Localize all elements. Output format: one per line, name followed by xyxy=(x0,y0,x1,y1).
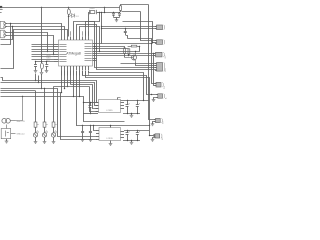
wire rail to A2 xyxy=(101,28,156,30)
capacitor C8 xyxy=(127,130,129,133)
wire chip row6 to C xyxy=(97,55,156,57)
wire vcc drop x104 xyxy=(104,7,106,12)
resistor R5 xyxy=(40,63,43,69)
ground C11 xyxy=(89,140,93,142)
wire LED3 drop xyxy=(53,87,55,123)
capacitor C7 xyxy=(137,100,139,105)
junction Q1 collector xyxy=(135,51,136,52)
wire R7 to LED xyxy=(44,127,46,133)
LED D2 xyxy=(33,133,37,137)
ground C4a xyxy=(34,71,38,73)
svg-text:M2: M2 xyxy=(162,138,164,141)
wire R4 wires xyxy=(128,46,132,48)
wire LED1 gnd xyxy=(35,137,37,141)
wire R5 gnd xyxy=(41,69,43,72)
wire xtal row ext xyxy=(123,22,153,43)
capacitor C4b xyxy=(46,62,48,65)
wire long row to J6 p3 xyxy=(95,47,157,68)
wire vertical x101 xyxy=(101,12,103,44)
ground C10 xyxy=(81,140,85,142)
junction caprail xyxy=(127,100,128,101)
wire diode gnd drop xyxy=(116,18,118,20)
IC U3 right pins xyxy=(121,131,125,133)
wire pin drop 6 xyxy=(76,71,78,126)
wire below R1 xyxy=(68,15,70,37)
connector J3 xyxy=(157,25,163,30)
svg-text:ATMega8: ATMega8 xyxy=(66,51,81,55)
ground C4b xyxy=(45,71,49,73)
wire chip row5 to C xyxy=(97,53,156,55)
wire isp drop1 xyxy=(35,74,37,81)
junction d1 xyxy=(151,43,152,44)
ground crystal diodes xyxy=(115,20,119,22)
wire pin drop 1 xyxy=(61,70,63,93)
wire U3 bottom gnd xyxy=(110,141,112,144)
junction J2p2 xyxy=(53,54,54,55)
resistor R3 xyxy=(128,49,130,55)
wire U3 cap bottom rail xyxy=(123,140,140,142)
wire into B p2 xyxy=(152,42,157,44)
wire power up xyxy=(16,97,23,121)
wire net E xyxy=(77,25,97,49)
junction j6p4 xyxy=(96,48,97,49)
wire isp drop3 xyxy=(41,75,43,89)
wire net B xyxy=(1,27,65,40)
ground R5 xyxy=(40,72,44,74)
wire U2 cap bottom rail xyxy=(123,113,140,115)
wire drop to J7 p2 xyxy=(154,54,157,86)
junction J8row xyxy=(151,94,152,95)
junction top rail x68 xyxy=(68,7,69,8)
junction top rail x41 xyxy=(41,7,42,8)
junction below R1 xyxy=(68,16,69,17)
ground LED1 xyxy=(34,142,38,144)
wire R3 bottom xyxy=(128,54,130,56)
connector J5 xyxy=(156,52,163,57)
wire U3 top rail xyxy=(110,126,112,128)
wire xtal left xyxy=(89,13,90,37)
junction c4b xyxy=(46,61,47,62)
wire drop to J7 p1 xyxy=(152,44,157,84)
junction caprail2 xyxy=(127,130,128,131)
junction top rail x104 xyxy=(104,7,105,8)
wire J1 pin stubs xyxy=(5,23,11,25)
wire J8 pin2 gnd xyxy=(154,98,158,100)
svg-text:L293D: L293D xyxy=(106,138,113,140)
wire pin drop 5 xyxy=(73,70,75,97)
IC U3 left pins xyxy=(96,130,99,132)
capacitor C3 xyxy=(125,28,127,31)
wire PD row2 xyxy=(32,46,55,48)
wire B feed top xyxy=(141,12,157,41)
connector J4 xyxy=(157,40,163,45)
wire bundle row1 xyxy=(1,78,99,103)
wire row to J6 p1 xyxy=(121,63,157,65)
ground LED2 xyxy=(43,142,47,144)
wire U2 dec rail top xyxy=(83,102,96,104)
wire bundle row5 xyxy=(1,89,97,137)
IC U3 motor driver xyxy=(99,128,121,141)
wire bundle row3 xyxy=(71,85,99,109)
wire rail y11 xyxy=(122,11,141,13)
wire pin drop 2 xyxy=(64,70,66,89)
wire pin drop 7 xyxy=(79,70,81,97)
wire J10 gnd xyxy=(153,122,156,124)
connector J2 xyxy=(0,30,4,38)
wire row to J11 xyxy=(149,135,155,137)
wire xtal right drop xyxy=(86,13,100,37)
wire net D xyxy=(74,22,95,47)
ground U3 xyxy=(109,144,113,146)
wire net A xyxy=(1,24,62,45)
svg-text:M1: M1 xyxy=(163,122,165,125)
junction y12 xyxy=(99,12,100,13)
wire pin drop 3 xyxy=(67,70,69,87)
junction J1 pins xyxy=(10,23,11,24)
svg-text:L293D: L293D xyxy=(106,110,113,112)
ground J11 xyxy=(151,139,155,141)
capacitor C6 xyxy=(127,100,129,105)
resistor R7 xyxy=(43,122,46,127)
resistor R2 xyxy=(124,48,126,54)
wire rst row xyxy=(36,61,55,63)
svg-text:5V1: 5V1 xyxy=(76,16,79,18)
svg-text:Vbat 7.2V: Vbat 7.2V xyxy=(17,120,26,123)
wire J11 gnd xyxy=(153,138,156,140)
wire xtal right xyxy=(97,12,100,14)
wire rail y4 xyxy=(121,5,149,6)
wire J2 pin1 wire xyxy=(6,33,48,52)
wire row y77 xyxy=(86,71,150,126)
wire pin drop 4 xyxy=(70,70,72,85)
wire row y72 xyxy=(89,71,144,101)
crystal Y1 xyxy=(90,11,95,14)
wire chip row1 to B xyxy=(97,43,153,45)
wire VCC top rail xyxy=(1,7,121,9)
wire isp row1 xyxy=(32,51,55,53)
inductor L1 xyxy=(120,6,122,11)
wire bundle row6 xyxy=(1,90,36,92)
wire C3 corner xyxy=(126,36,128,39)
wire LED1 drop xyxy=(35,91,37,122)
wire LED3 row xyxy=(54,86,90,88)
wire gnd stub u2 xyxy=(131,113,133,115)
wire drop x148 to J10 xyxy=(149,5,156,120)
wire U2 top pin xyxy=(117,98,119,100)
motor symbol M1 xyxy=(2,119,7,124)
capacitor C5 xyxy=(90,102,92,105)
junction x101a xyxy=(101,26,102,27)
wire row y75 xyxy=(83,71,158,95)
junction j6p3 xyxy=(94,46,95,47)
connector J8 xyxy=(158,94,163,98)
chip U1 left pins xyxy=(54,44,59,46)
wire row to J6 p2 xyxy=(136,63,157,66)
ground U2 caps xyxy=(130,115,134,117)
connector J1 xyxy=(0,21,4,28)
wire LED3 gnd xyxy=(53,137,55,141)
wire rail to A1 xyxy=(101,26,156,28)
junction row F xyxy=(99,51,100,52)
ground LED3 xyxy=(52,142,56,144)
diode D2 xyxy=(113,12,115,13)
ground U3 caps xyxy=(130,142,134,144)
wire U2 left loop xyxy=(84,103,125,122)
resistor R8 xyxy=(52,122,55,127)
ground J8 xyxy=(152,100,156,102)
junction J2p1 xyxy=(47,51,48,52)
wire R6 to LED xyxy=(35,127,37,133)
wire LED2 drop xyxy=(44,89,46,123)
wire U2 cap rail xyxy=(121,100,150,102)
battery B1 xyxy=(1,129,11,139)
capacitor C9 xyxy=(137,130,139,133)
junction c4a xyxy=(35,61,36,62)
wire LED2 gnd xyxy=(44,137,46,141)
IC U2 right pins xyxy=(121,102,125,104)
wire isp row3 xyxy=(32,56,55,58)
junction rst bus xyxy=(41,61,42,62)
wire net F xyxy=(80,27,100,52)
wire long row to J6 p4 xyxy=(97,49,157,70)
wire isp row4 xyxy=(32,59,55,61)
wire U3 pin1 feed xyxy=(94,126,97,131)
diode D1 xyxy=(72,14,75,18)
wire vertical x149 low xyxy=(149,126,151,136)
junction led2 xyxy=(44,88,45,89)
wire AREF drop xyxy=(68,7,70,9)
wire bundle row7 xyxy=(1,93,97,140)
svg-text:MOSI: MOSI xyxy=(47,55,52,57)
wire R8 to LED xyxy=(53,127,55,133)
LED D4 xyxy=(51,133,55,137)
capacitor C10 xyxy=(82,126,84,132)
junction drops xyxy=(35,80,36,81)
wire bundle row8 xyxy=(1,97,84,103)
wire gnd stub u3 xyxy=(131,140,133,142)
wire vertical bus reset pullup xyxy=(41,7,43,63)
wire U3 cap rail xyxy=(124,130,149,132)
LED D3 xyxy=(42,133,46,137)
capacitor C11 xyxy=(90,126,92,132)
chip U1 right pins xyxy=(93,43,97,45)
ground J10 xyxy=(151,124,155,126)
wire L1 bottom xyxy=(120,10,122,12)
wire J2 pin2 wire xyxy=(6,36,54,55)
diode D3 xyxy=(119,12,121,13)
chip U1 bottom pins xyxy=(61,66,63,70)
connector J7 xyxy=(156,82,161,87)
svg-text:GND_bat: GND_bat xyxy=(17,133,25,136)
transistor Q1 xyxy=(132,55,137,60)
junction C row xyxy=(153,53,154,54)
resistor R6 xyxy=(34,122,37,127)
chip U1 top pins xyxy=(61,37,63,41)
svg-text:PW: PW xyxy=(164,86,166,89)
wire row y38 xyxy=(128,39,152,43)
wire bat up xyxy=(6,125,8,129)
wire net C xyxy=(1,30,68,69)
power flag VCC xyxy=(0,6,2,8)
wire R2 bottom xyxy=(124,54,126,58)
chip U1 ATMega8 body xyxy=(59,40,93,66)
capacitor C4a xyxy=(35,62,37,65)
wire bundle row2 xyxy=(1,83,99,106)
junction u2loop xyxy=(83,102,84,103)
ground battery xyxy=(5,141,9,143)
wire chip row3 xyxy=(97,48,129,50)
IC U2 left pins xyxy=(96,102,99,104)
wire chip row2 xyxy=(97,47,125,49)
wire PD row3 xyxy=(32,49,55,51)
connector J6 xyxy=(157,63,163,72)
junction bundle row8 xyxy=(22,96,23,97)
wire chip row4 xyxy=(97,47,140,52)
wire rail y12 xyxy=(100,12,120,14)
resistor R1 xyxy=(67,9,70,15)
resistor R4 xyxy=(131,45,137,47)
wire isp drop2 xyxy=(38,76,40,83)
svg-text:16MHz: 16MHz xyxy=(90,8,95,10)
wire isp row2 xyxy=(32,54,55,56)
wire bundle row4 xyxy=(90,87,99,112)
connector J11 xyxy=(155,134,160,138)
wire bat gnd stem xyxy=(6,139,8,141)
wire PD row1 xyxy=(32,44,55,46)
IC U2 motor driver xyxy=(99,100,121,113)
wire diode bottoms xyxy=(114,17,120,19)
connector J10 xyxy=(156,118,161,122)
wire U2 dec rail bottom xyxy=(83,113,98,115)
